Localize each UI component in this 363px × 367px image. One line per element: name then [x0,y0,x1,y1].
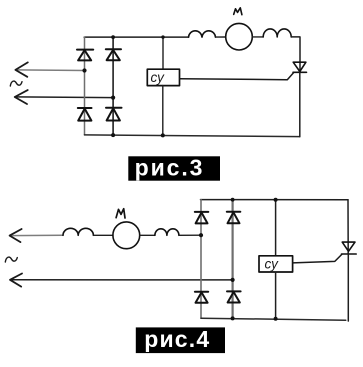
motor M2 (fig.4) [113,222,140,249]
wire top rail down to control box (fig.4) [275,200,277,256]
wire L2 to right branch corner (fig.3) [291,37,300,72]
wire AC line 2 (fig.4) [10,279,232,281]
wire L4 to bridge left rail (fig.4) [179,234,201,236]
inductor L3 (fig.4) [63,228,93,235]
arrow terminal 1 (fig.3) [15,62,27,76]
inductor L4 (fig.4) [155,229,179,236]
motor M1 (fig.3) [226,23,253,50]
AC source symbol ~ (fig.3) [10,81,22,86]
wire control box down to bottom rail (fig.4) [275,272,277,319]
label M of motor (fig.4) [116,209,125,218]
wire bridge bottom rail (fig.3) [85,135,300,137]
label M of motor (fig.3) [234,8,242,15]
wire L3 to motor (fig.4) [93,234,113,236]
wire right branch top (fig.4) [347,200,349,254]
control unit box СУ U2 (fig.4) [259,256,293,272]
wire bridge right rail (fig.4) [232,200,234,319]
wire gate lead from СУ to thyristor (fig.4) [293,254,342,263]
node junction top rail / control branch (fig.4) [274,198,278,202]
thyristor VS2 (fig.4) [342,242,357,254]
wire motor to L4 (fig.4) [140,234,155,236]
thyristor VS1 (fig.3) [293,62,307,72]
svg-text:су: су [265,256,280,271]
arrow terminal 2 (fig.4) [10,274,22,287]
wire thyristor cathode down to bottom rail (fig.3) [299,72,301,136]
control unit box СУ U1 (fig.3) [147,69,179,85]
diode D4 bottom-right (fig.3) [106,108,122,121]
node bottom of right rail (fig.3) [111,133,115,137]
diode D1 top-left (fig.3) [77,50,93,61]
wire L1 to motor (fig.3) [216,36,226,38]
wire bridge top rail (fig.4) [201,199,349,201]
diode D5 top-left (fig.4) [195,212,209,224]
wire bridge right rail (fig.3) [112,37,114,135]
wire from control box down to bottom rail (fig.3) [162,86,164,136]
svg-text:рис.3: рис.3 [135,155,205,181]
wire bridge bottom rail (fig.4) [201,318,346,320]
node top of right rail (fig.3) [111,35,115,39]
wire bridge left rail (fig.4) [200,200,202,319]
wire from top rail down to control box (fig.3) [162,37,164,69]
svg-text:су: су [151,70,166,85]
diode D7 bottom-left (fig.4) [195,292,208,303]
diode D6 top-right (fig.4) [227,212,241,224]
wire thyristor cathode down to bottom rail (fig.4) [347,254,349,321]
diode D2 top-right (fig.3) [106,49,121,60]
diode D3 bottom-left (fig.3) [78,108,92,121]
node junction top rail / control branch (fig.3) [161,35,164,38]
arrow terminal 1 (fig.4) [10,229,22,242]
node top of right rail (fig.4) [231,198,235,202]
label box рис.4 [136,326,225,353]
label box рис.3 [128,155,220,181]
wire gate lead from СУ to thyristor (fig.3) [180,73,294,80]
wire bridge left rail (fig.3) [84,37,86,135]
inductor L1 (fig.3) [189,31,216,37]
node junction bottom rail / control branch (fig.3) [161,133,165,137]
wire AC line 1 (fig.3) [16,69,85,72]
AC source symbol ~ (fig.4) [5,257,17,262]
diode D8 bottom-right (fig.4) [227,291,241,302]
node bottom of right rail (fig.4) [231,316,235,320]
node tap AC2 on right rail (fig.4) [231,278,235,282]
wire AC line 2 (fig.3) [15,96,113,99]
node junction bottom rail / control branch (fig.4) [274,317,278,321]
wire bridge top rail (fig.3) [84,36,188,38]
arrow terminal 2 (fig.3) [15,90,28,104]
inductor L2 (fig.3) [263,29,291,37]
node tap AC1 on left rail (fig.3) [82,68,86,72]
node tap AC1 on left rail (fig.4) [199,233,203,237]
node tap AC2 on right rail (fig.3) [111,96,115,100]
wire motor to L2 (fig.3) [252,36,263,38]
wire AC line 1 (fig.4) [10,234,63,236]
svg-text:рис.4: рис.4 [144,326,210,352]
